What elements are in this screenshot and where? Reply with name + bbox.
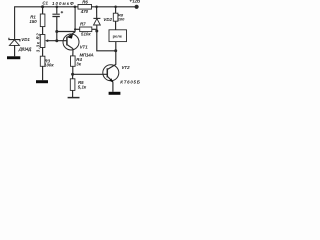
node A: [55, 30, 58, 33]
wire: [73, 73, 108, 75]
diode VD2: [93, 17, 112, 25]
node: [74, 6, 77, 9]
relay K1: [109, 30, 127, 42]
svg-text:реле: реле: [113, 33, 123, 38]
ground: [7, 56, 20, 59]
wire: [112, 82, 114, 91]
wire: [42, 7, 44, 14]
node: [95, 6, 98, 9]
wire: [96, 7, 98, 19]
transistor VT2: [103, 65, 140, 85]
node: [114, 49, 117, 52]
svg-text:100мкФ: 100мкФ: [52, 1, 74, 6]
svg-text:3к: 3к: [76, 61, 81, 66]
svg-text:150: 150: [29, 19, 37, 24]
node: [41, 5, 44, 8]
transistor VT1: [63, 32, 94, 58]
resistor R8: [113, 7, 125, 22]
wire: [57, 31, 75, 33]
zener diode VD1: [9, 37, 32, 51]
node: [74, 28, 76, 30]
ground: [109, 92, 121, 95]
wire: [97, 25, 116, 51]
ground: [36, 80, 48, 83]
svg-text:Д814Д: Д814Д: [18, 46, 32, 51]
wire: [92, 6, 137, 8]
svg-text:470: 470: [80, 9, 89, 14]
wire: [72, 66, 74, 74]
svg-text:3,3к R2: 3,3к R2: [36, 33, 41, 53]
wire: [108, 42, 116, 70]
resistor R4: [71, 56, 83, 67]
capacitor C1: [42, 1, 74, 17]
svg-text:КТ605Б: КТ605Б: [120, 80, 140, 85]
svg-text:510к: 510к: [81, 32, 91, 37]
node: [56, 6, 59, 9]
wire: [115, 21, 117, 30]
svg-text:R6: R6: [82, 0, 88, 4]
wire: [48, 40, 67, 42]
wire: [42, 48, 44, 57]
resistor R6: [78, 0, 92, 14]
svg-text:VD1: VD1: [21, 37, 30, 42]
wire: [92, 28, 97, 30]
resistor R5: [70, 74, 87, 90]
svg-text:5,1к: 5,1к: [78, 85, 87, 90]
wire: [72, 49, 74, 56]
svg-text:100к: 100к: [44, 62, 54, 67]
resistor R7: [80, 21, 92, 36]
svg-text:R7: R7: [80, 21, 86, 26]
wire: [72, 90, 74, 97]
wire: [74, 7, 76, 32]
terminal +12V: [130, 0, 141, 9]
svg-text:С1: С1: [42, 1, 48, 6]
node: [114, 6, 117, 9]
resistor R2 trimmer: [36, 33, 49, 53]
node: [71, 73, 74, 76]
svg-text:100: 100: [118, 17, 125, 22]
wire: [56, 17, 58, 41]
svg-text:VD2: VD2: [103, 17, 112, 22]
svg-text:VT1: VT1: [80, 45, 89, 50]
wire: [14, 45, 16, 56]
wire: [42, 27, 44, 35]
svg-text:+12В: +12В: [130, 0, 141, 4]
wire: [75, 28, 80, 30]
resistor R3: [40, 56, 54, 67]
svg-text:VT2: VT2: [122, 65, 131, 70]
resistor R1: [29, 14, 44, 27]
node: [95, 30, 98, 33]
wire: [15, 7, 78, 40]
wire: [42, 66, 44, 80]
node B: [55, 39, 58, 42]
ground: [68, 97, 80, 99]
